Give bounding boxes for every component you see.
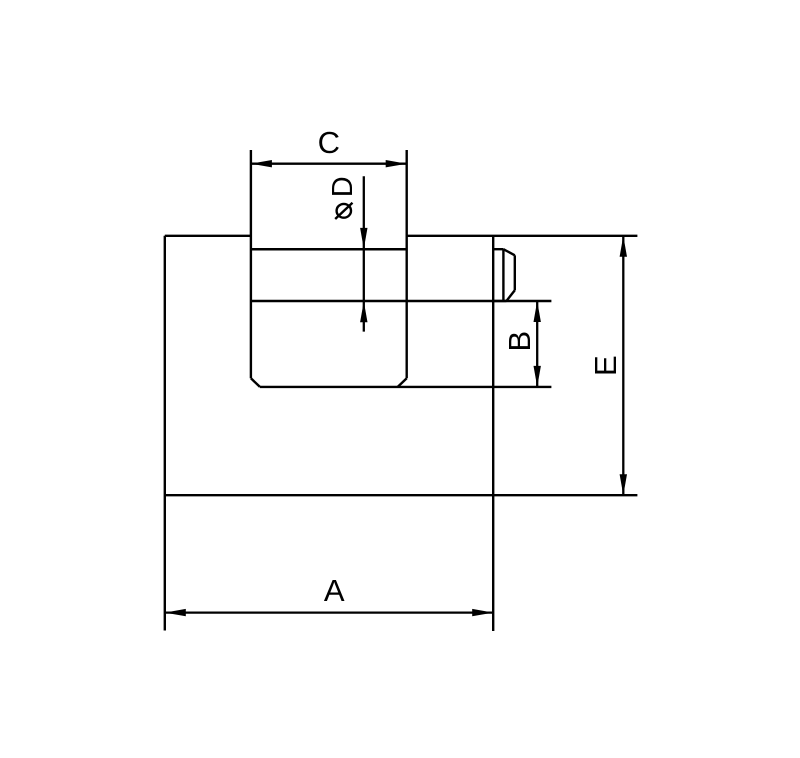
shackle bar bottom line with B extension line	[251, 300, 552, 302]
shackle pin tip vertical	[514, 255, 516, 290]
svg-text:B: B	[502, 331, 537, 352]
shackle pin bottom edge	[493, 300, 506, 302]
shackle bar top line	[251, 248, 407, 251]
padlock body top edge left segment	[165, 235, 251, 237]
arrowhead D up (onto bar bottom line)	[360, 301, 367, 322]
shackle pin top edge	[493, 248, 503, 250]
svg-text:E: E	[588, 355, 623, 376]
svg-text:A: A	[324, 573, 345, 608]
padlock body left edge with A extension line	[164, 236, 166, 631]
shackle bottom edge with B extension line	[260, 386, 552, 388]
shackle bottom left chamfer	[251, 378, 260, 387]
arrowhead E top	[620, 236, 627, 257]
padlock body top edge right segment with E extension line	[407, 235, 638, 237]
svg-text:D: D	[327, 176, 359, 197]
diameter symbol of D label	[335, 203, 352, 219]
arrowhead B bottom	[534, 366, 541, 387]
arrowhead C right	[386, 160, 407, 167]
dimension line E	[622, 236, 624, 495]
arrowhead D down (onto bar top line)	[360, 228, 367, 249]
arrowhead A right	[472, 609, 493, 616]
dimension line D vertical	[363, 176, 365, 331]
shackle left side with C extension line	[250, 150, 252, 378]
arrowhead A left	[165, 609, 186, 616]
shackle bottom right chamfer	[398, 378, 407, 387]
dimension line A	[165, 611, 493, 613]
shackle pin inner vertical	[502, 249, 504, 301]
shackle right side with C extension line	[406, 150, 408, 378]
padlock body bottom edge with E extension line	[165, 494, 638, 496]
padlock body right edge with A extension line	[492, 236, 494, 631]
dimension line C	[251, 163, 407, 165]
shackle pin bottom chamfer	[506, 290, 514, 301]
svg-text:C: C	[318, 125, 340, 160]
arrowhead B top	[534, 301, 541, 322]
arrowhead C left	[251, 160, 272, 167]
dimension line B	[536, 301, 538, 387]
arrowhead E bottom	[620, 474, 627, 495]
shackle pin top chamfer	[503, 249, 514, 255]
